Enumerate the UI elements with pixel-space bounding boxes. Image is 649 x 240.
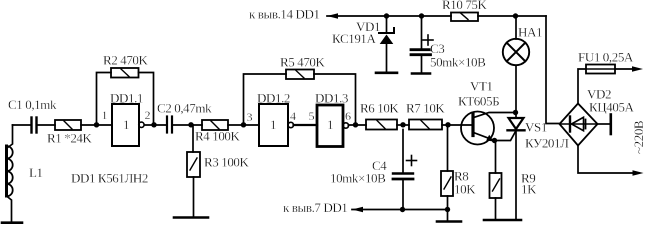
node (pin3 junction) — [241, 122, 246, 127]
svg-text:1: 1 — [270, 117, 276, 132]
wire (R1 to DD1.1 pin1) — [81, 124, 112, 126]
svg-text:FU1 0,25A: FU1 0,25A — [578, 50, 634, 65]
node (lamp tap) — [513, 13, 518, 18]
wire (top supply rail) — [327, 13, 546, 19]
svg-text:КС191А: КС191А — [332, 31, 377, 46]
svg-text:6: 6 — [345, 109, 351, 123]
terminal (bridge minus to common) — [598, 115, 611, 135]
zener diode VD1 — [379, 16, 394, 72]
node (DD1.1 output) — [151, 122, 156, 127]
resistor R10 — [451, 13, 478, 22]
svg-text:C1 0,1mk: C1 0,1mk — [8, 97, 57, 112]
capacitor C2 — [167, 117, 172, 133]
node (VD1 tap) — [384, 13, 389, 18]
node K: to pin 7 line — [352, 207, 448, 213]
node (emitter junction) — [492, 138, 497, 143]
C4 plus sign — [407, 156, 417, 166]
svg-text:10mk×10B: 10mk×10B — [330, 171, 386, 186]
wire (DD1.2 to DD1.3) — [294, 124, 318, 126]
svg-text:5: 5 — [309, 109, 315, 123]
node (collector junction) — [513, 110, 518, 115]
wire (bridge to fuse) — [578, 69, 586, 104]
svg-text:КУ201Л: КУ201Л — [525, 136, 569, 151]
wire (C1 to R1) — [38, 124, 56, 126]
svg-text:10K: 10K — [454, 182, 476, 197]
node (C3 tap) — [419, 13, 424, 18]
svg-text:к выв.14 DD1: к выв.14 DD1 — [249, 7, 320, 22]
ground (R9 VS1 rail) — [484, 219, 521, 222]
C3 plus sign — [423, 35, 433, 45]
svg-text:C2 0,47mk: C2 0,47mk — [157, 101, 212, 116]
capacitor C3 — [411, 16, 431, 72]
wire (R4 to DD1.2 pin3) — [228, 124, 259, 126]
svg-text:4: 4 — [290, 109, 296, 123]
svg-text:1: 1 — [327, 117, 333, 132]
resistor R4 — [202, 120, 228, 130]
svg-text:1K: 1K — [521, 182, 537, 197]
ground (VD1) — [376, 72, 397, 75]
resistor R8 — [441, 125, 453, 221]
svg-text:~220В: ~220В — [631, 120, 646, 154]
resistor R7 — [409, 120, 442, 130]
svg-text:R7 10K: R7 10K — [406, 101, 445, 116]
svg-text:R6 10K: R6 10K — [360, 101, 399, 116]
svg-text:2: 2 — [145, 108, 151, 122]
wire (DD1.1 out to C2) — [145, 124, 167, 126]
ground (L1) — [2, 221, 22, 224]
capacitor C1 — [32, 118, 37, 133]
bridge rectifier VD2 — [560, 104, 598, 146]
svg-text:DD1.1: DD1.1 — [110, 91, 143, 106]
svg-text:DD1 К561ЛН2: DD1 К561ЛН2 — [71, 171, 148, 186]
svg-text:VS1: VS1 — [525, 120, 547, 135]
svg-text:R2 470K: R2 470K — [103, 53, 149, 68]
ground (R8) — [437, 220, 461, 223]
op-amp U2 : inverter DD1.2 — [259, 104, 293, 146]
node (C4 tap) — [400, 122, 405, 127]
svg-text:к выв.7 DD1: к выв.7 DD1 — [283, 200, 347, 215]
ground (C3) — [412, 72, 430, 75]
wire (fuse to mains, arrow) — [615, 66, 643, 72]
ground (R3) — [174, 216, 208, 219]
svg-text:R4 100K: R4 100K — [195, 129, 241, 144]
node (pin6 junction) — [353, 122, 358, 127]
svg-text:DD1.3: DD1.3 — [315, 91, 348, 106]
resistor R3 — [187, 125, 200, 217]
node (R8 bottom junction) — [445, 207, 450, 212]
svg-text:50mk×10B: 50mk×10B — [430, 55, 486, 70]
lamp HA1 — [503, 16, 529, 65]
thyristor VS1 — [495, 66, 525, 220]
transistor Q1 : VT1 — [461, 112, 514, 145]
svg-text:КТ605Б: КТ605Б — [458, 94, 499, 109]
wire (DD1.3 out to R6) — [349, 124, 367, 126]
node (pin1 junction) — [94, 122, 99, 127]
svg-text:R3 100K: R3 100K — [204, 155, 250, 170]
svg-text:1: 1 — [123, 117, 129, 132]
svg-text:3: 3 — [247, 110, 253, 124]
svg-text:HA1: HA1 — [518, 25, 542, 40]
resistor R2 — [97, 68, 154, 124]
capacitor C4 — [393, 130, 413, 210]
resistor R5 — [244, 70, 356, 125]
svg-text:R10 75K: R10 75K — [442, 0, 488, 12]
svg-text:R1 *24K: R1 *24K — [47, 131, 93, 146]
svg-text:R5 470K: R5 470K — [280, 55, 326, 70]
wire (C2 to R4) — [173, 124, 202, 126]
fuse FU1 — [586, 65, 615, 74]
inductor L1 — [7, 125, 13, 222]
svg-text:VT1: VT1 — [470, 79, 493, 94]
op-amp U3 : inverter DD1.3 — [317, 105, 348, 147]
wire (rail down to bridge) — [546, 16, 560, 124]
node (C4 bottom junction) — [400, 207, 405, 212]
svg-text:1: 1 — [102, 108, 108, 122]
resistor R1 — [55, 120, 81, 130]
wire (bridge bottom to mains, arrow) — [578, 146, 644, 176]
wire (R7 to VT1 base) — [442, 124, 471, 126]
resistor R6 — [366, 120, 397, 130]
node (R8 tap) — [445, 122, 450, 127]
wire (C1 left lead) — [13, 124, 31, 126]
op-amp U1 : inverter DD1.1 — [112, 104, 144, 146]
svg-text:L1: L1 — [29, 165, 43, 180]
svg-text:КЦ405А: КЦ405А — [589, 100, 635, 115]
node (R3 tap) — [188, 122, 193, 127]
svg-text:DD1.2: DD1.2 — [257, 91, 290, 106]
resistor R9 — [490, 141, 502, 220]
wire (R6 to R7) — [397, 124, 409, 126]
